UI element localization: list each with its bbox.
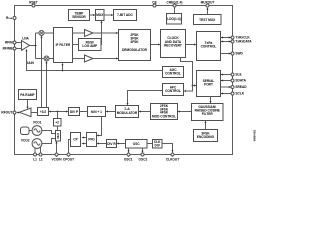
svg-text:TxRxDATA: TxRxDATA [235,40,252,44]
svg-text:FILTER: FILTER [202,112,214,116]
svg-text:MODULATOR: MODULATOR [117,111,138,115]
wire creg to ldo [174,7,176,14]
svg-text:TEST MUX: TEST MUX [199,18,216,22]
svg-text:CE: CE [152,0,156,4]
svg-text:04954-001: 04954-001 [253,129,256,141]
svg-text:RFOUT: RFOUT [1,111,12,115]
svg-text:VCO2: VCO2 [21,139,30,143]
wire swd [221,53,232,55]
wire cdr to serial port and afc [181,58,197,93]
pin RFINB [3,47,16,51]
wire demodulator to cdr [151,44,161,46]
svg-text:4FSK: 4FSK [130,40,139,44]
svg-text:L1: L1 [33,158,37,162]
svg-text:OSC1: OSC1 [124,158,133,162]
svg-text:SENSOR: SENSOR [72,15,86,19]
svg-text:RFIN: RFIN [5,41,13,45]
svg-text:MUX: MUX [96,13,104,17]
svg-text:CREG(1:4): CREG(1:4) [167,0,183,4]
wire pa to rfout [16,112,19,114]
svg-text:CLKOUT: CLKOUT [166,158,179,162]
wire L1 to vco2 [34,148,36,154]
svg-text:SREAD: SREAD [235,85,247,89]
temp sensor block [69,10,90,21]
pin RLNA [6,16,16,20]
svg-text:CONTROL: CONTROL [201,44,217,48]
wire junction to div12 and div p [49,111,69,113]
pin RFOUT [1,111,16,115]
limiter amp bottom [85,55,94,62]
wire test mux to muxout [207,7,209,14]
wire L2 to vco2 [40,148,42,154]
cp block [71,133,81,147]
svg-text:OSC2: OSC2 [139,158,148,162]
pin RSET [29,0,38,7]
svg-text:SDATA: SDATA [235,79,246,83]
svg-text:SCLK: SCLK [235,92,244,96]
mod control block [151,104,178,120]
serial port block [197,71,221,97]
svg-text:MUX: MUX [56,133,60,139]
if filter block [54,28,73,63]
wire pfd to cp up [82,137,87,139]
pfd block [87,133,97,147]
wire sclk [221,93,232,95]
osc block [126,140,148,149]
ldo block [167,14,182,25]
pin SDATA [231,79,247,83]
wire rfin to lna [16,42,22,44]
wire clk div to clkout [162,144,174,153]
pin CPOUT [63,153,74,162]
lna amp [22,36,30,50]
rssi log amp block [79,39,102,51]
wire rssi to adc mux [101,21,103,45]
mixer Q [44,56,49,61]
vco mux block [56,131,61,142]
svg-text:÷2: ÷2 [55,121,59,125]
wire mod control to sigma delta [139,111,151,113]
svg-text:RSET: RSET [29,0,38,4]
vco1 tank [21,127,33,135]
svg-text:DEMODULATOR: DEMODULATOR [122,48,148,52]
svg-text:MOD CONTROL: MOD CONTROL [152,115,176,119]
svg-text:SWD: SWD [235,52,243,56]
pin CREG(1:4) [167,0,183,7]
div p block [69,108,80,116]
agc gain wire [26,49,163,72]
svg-text:PFD: PFD [88,138,95,142]
pin L2 [39,153,43,162]
pin L1 [33,153,37,162]
wire 3fsk encoding to gaussian [205,121,207,130]
svg-text:SLE: SLE [235,73,241,77]
pin VCOIN [51,153,62,162]
wire div12 to pa [31,112,38,114]
pin CLKOUT [166,153,179,162]
pin SWD [231,52,244,56]
wire if filter to rssi [73,44,79,46]
pin TxRxDATA [231,40,252,44]
divide 1/2 block [38,108,49,116]
n/n+1 block [88,107,106,117]
pin OSC2 [139,153,148,162]
wire vco1 to vco mux [42,131,56,134]
svg-text:DIV R: DIV R [107,142,116,146]
svg-text:RFINB: RFINB [3,47,13,51]
svg-text:OSC: OSC [133,142,141,146]
agc control block [163,67,184,78]
wire mux to adc [104,14,114,16]
svg-text:CPOUT: CPOUT [63,158,74,162]
7-bit adc block [114,10,137,21]
pa ramp block [19,90,37,100]
svg-text:MUXOUT: MUXOUT [201,0,215,4]
test mux block [194,15,222,25]
svg-text:CONTROL: CONTROL [165,71,181,75]
wire lna output split [30,33,45,59]
div r block [107,140,117,148]
svg-text:VCOIN: VCOIN [51,158,62,162]
3fsk encoding block [194,130,218,142]
svg-text:PA RAMP: PA RAMP [20,93,35,97]
wire txrxclk [221,37,232,39]
svg-text:CONTROL: CONTROL [165,89,181,93]
wire osc to div r [117,143,126,145]
wire if filter to amp bottom [73,58,85,60]
wire gaussian to mod control [178,111,192,113]
wire osc to clk div [147,143,153,145]
pin SCLK [231,92,245,96]
svg-text:7-BIT ADC: 7-BIT ADC [117,13,133,17]
pin OSC1 [124,153,133,162]
wire txrxdata [221,41,232,43]
wire pfd to cp dn [82,143,87,145]
svg-text:DIV P: DIV P [70,110,79,114]
svg-text:VCO1: VCO1 [33,120,42,124]
afc control block [163,84,184,96]
wire mixer I to if filter [44,32,54,34]
mixer I [39,31,44,36]
wire cdr to txrx control [186,44,197,46]
pin RFIN [5,41,16,45]
wire sread [221,86,232,88]
svg-text:L2: L2 [39,158,43,162]
wire lo riser to mixer Q [46,61,48,108]
wire n divider to pfd [97,117,102,137]
gaussian raised cosine filter block [192,104,224,121]
wire cp to cpout [69,140,71,153]
clock and data recovery block [161,30,186,58]
wire if filter to amp top [73,32,85,34]
wire osc to osc2 [142,148,144,153]
divide by 2 block [54,119,62,127]
svg-text:PORT: PORT [204,83,213,87]
pin TxRxCLK [231,36,250,40]
svg-text:ENCODING: ENCODING [197,135,215,139]
chip border [15,6,233,155]
vco2 [21,139,42,149]
clk div block [153,140,163,149]
figure code [253,129,256,141]
wire pa ramp to pa [27,100,29,110]
svg-text:RECOVERY: RECOVERY [164,43,183,47]
svg-text:LOG AMP: LOG AMP [82,44,98,48]
svg-text:LDO(1:4): LDO(1:4) [167,17,180,21]
wire lo riser to mixer I [41,36,43,108]
pin MUXOUT [201,0,215,7]
wire div r to pfd [97,143,107,145]
svg-text:N/N + 1: N/N + 1 [91,110,102,114]
vco1 [32,120,42,135]
wire vcoin to vco mux [56,141,58,153]
pin SREAD [231,85,247,89]
afc to sigma delta wire [127,91,163,106]
wire sle [221,74,232,76]
wire div p to n divider [80,111,88,113]
wire rfinb to lna [16,48,22,50]
svg-text:IF FILTER: IF FILTER [56,43,71,47]
limiter amp top [85,30,94,37]
wire vco2 to vco mux [42,139,56,144]
wire sdata [221,80,232,82]
gain label [26,61,35,65]
svg-text:GAIN: GAIN [26,61,35,65]
pin SLE [231,73,242,77]
txrx control block [197,32,221,61]
wire serial port to gaussian [210,97,212,104]
svg-text:LNA: LNA [22,36,29,40]
demodulator block [119,30,151,61]
sigma delta modulator block [116,106,139,118]
wire temp sensor to mux [90,14,96,16]
pa amp [19,108,31,117]
wire osc to osc1 [128,148,130,153]
wire amp top to demodulator [93,32,119,34]
adc mux block [96,10,105,21]
wire amp bottom to demodulator [93,58,119,60]
pin CE [152,0,156,7]
wire mixer Q to if filter [49,58,54,60]
wire vco mux riser [57,112,59,131]
wire sigma delta to n divider [106,111,116,113]
svg-text:DIV: DIV [155,143,161,147]
svg-text:÷1/2: ÷1/2 [40,110,46,114]
